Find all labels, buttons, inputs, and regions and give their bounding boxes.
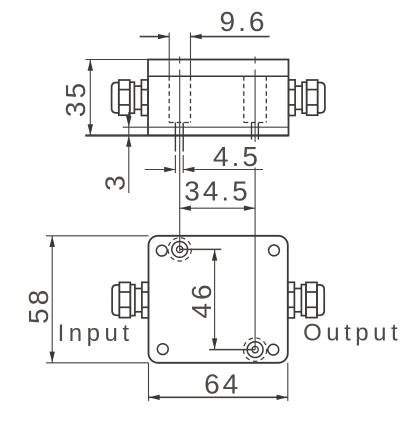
left hole hidden outline (side view) — [169, 76, 190, 122]
mounting hole H2 — [243, 338, 266, 361]
cavity floor line — [123, 126, 288, 128]
dimension 58 — [46, 236, 149, 363]
dimension 9.6 — [140, 33, 270, 77]
left connector J1 (side view) — [112, 80, 148, 116]
svg-text:35: 35 — [60, 80, 91, 117]
left connector (plan view) — [112, 282, 148, 318]
svg-text:46: 46 — [186, 281, 217, 318]
dimension 64 — [149, 363, 288, 401]
side view body — [85, 60, 288, 136]
dimension text 35 — [60, 80, 91, 117]
dimension 3 — [126, 112, 131, 193]
side view lid seam — [148, 75, 289, 77]
right connector (plan view) — [288, 282, 324, 318]
svg-text:9.6: 9.6 — [220, 6, 268, 37]
corner screw hole top-left — [156, 245, 167, 256]
dimension 46 — [180, 249, 255, 349]
corner screw hole top-right — [269, 245, 280, 256]
svg-text:3: 3 — [100, 172, 131, 191]
svg-text:Input: Input — [58, 320, 134, 347]
svg-text:64: 64 — [204, 369, 241, 400]
svg-text:58: 58 — [23, 287, 54, 324]
left hole center line — [179, 57, 181, 64]
right pin — [252, 123, 259, 140]
svg-text:Output: Output — [303, 320, 402, 347]
svg-text:4.5: 4.5 — [213, 141, 261, 172]
right connector J2 (side view) — [289, 80, 325, 116]
plan view plate — [149, 236, 288, 363]
right hole hidden outline (side view) — [244, 76, 266, 122]
svg-text:34.5: 34.5 — [184, 176, 251, 207]
dimension text 58 — [23, 287, 54, 324]
dimension text 46 — [186, 281, 217, 318]
left pin — [175, 123, 183, 152]
right hole center line — [254, 57, 256, 350]
dimension 34.5 — [180, 206, 255, 211]
dimension 4.5 — [145, 155, 263, 173]
dimension 35 — [85, 60, 148, 136]
corner screw hole bottom-left — [157, 344, 168, 355]
mounting hole H1 — [168, 238, 191, 261]
dimension text 3 — [100, 172, 131, 191]
corner screw hole bottom-right — [268, 344, 279, 355]
